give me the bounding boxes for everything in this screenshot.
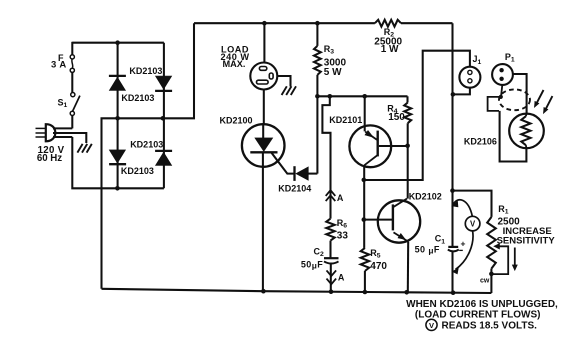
svg-text:KD2101: KD2101 — [329, 115, 362, 125]
svg-text:+: + — [461, 238, 466, 248]
svg-text:5 W: 5 W — [324, 67, 342, 78]
svg-text:KD2104: KD2104 — [278, 184, 311, 194]
svg-text:A: A — [337, 193, 344, 203]
svg-text:150: 150 — [388, 112, 405, 123]
svg-text:(LOAD CURRENT FLOWS): (LOAD CURRENT FLOWS) — [415, 309, 541, 320]
svg-text:1 W: 1 W — [381, 44, 399, 55]
svg-text:SENSITIVITY: SENSITIVITY — [497, 236, 556, 247]
svg-text:KD2106: KD2106 — [464, 137, 497, 147]
svg-text:3 A: 3 A — [51, 60, 67, 71]
svg-text:KD2103: KD2103 — [129, 66, 162, 76]
svg-text:cw: cw — [480, 278, 490, 285]
svg-text:50 μF: 50 μF — [415, 244, 440, 255]
svg-text:KD2103: KD2103 — [121, 166, 154, 176]
svg-text:KD2103: KD2103 — [130, 139, 163, 149]
svg-text:KD2102: KD2102 — [409, 191, 442, 201]
svg-text:WHEN KD2106 IS UNPLUGGED,: WHEN KD2106 IS UNPLUGGED, — [406, 299, 558, 310]
svg-text:V: V — [470, 220, 476, 229]
svg-text:50μF: 50μF — [301, 259, 323, 270]
svg-text:READS 18.5 VOLTS.: READS 18.5 VOLTS. — [442, 321, 538, 332]
svg-text:KD2100: KD2100 — [220, 115, 253, 125]
svg-text:33: 33 — [337, 231, 349, 242]
svg-text:KD2103: KD2103 — [121, 93, 154, 103]
svg-text:60 Hz: 60 Hz — [37, 153, 62, 164]
svg-text:470: 470 — [370, 261, 387, 272]
svg-text:MAX.: MAX. — [223, 59, 246, 69]
svg-text:A: A — [338, 272, 345, 282]
